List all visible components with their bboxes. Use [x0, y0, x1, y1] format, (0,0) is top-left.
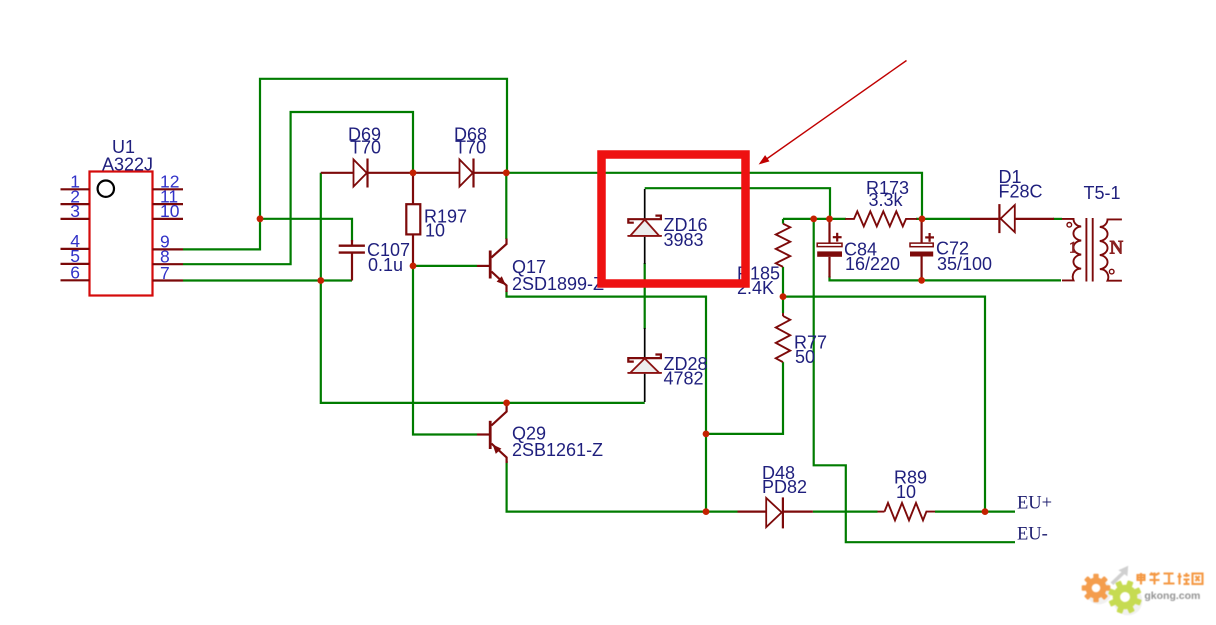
diode D1 right lead — [1015, 218, 1054, 220]
svg-text:10: 10 — [160, 201, 180, 221]
wire R77 top lead — [782, 297, 784, 313]
wire ZD16 bottom to ZD28 top (green mid segment) — [644, 263, 646, 329]
node pin7/C107-bottom — [317, 277, 324, 284]
zener ZD28 base line — [627, 372, 662, 374]
svg-text:1: 1 — [1069, 240, 1077, 257]
wire EU+ rail — [507, 461, 738, 512]
node R197/Q17-base/Q29-base — [410, 263, 417, 270]
wire D69 anode down to ZD28 bottom rail — [321, 173, 645, 403]
svg-text:A322J: A322J — [102, 155, 153, 175]
svg-text:N: N — [1110, 238, 1124, 259]
zener ZD28 bottom lead (black) — [644, 374, 646, 402]
wire Q17 base node down to Q29 base — [413, 266, 477, 435]
zener ZD28 top lead (black) — [644, 328, 646, 358]
svg-text:3983: 3983 — [664, 230, 704, 250]
node R77-bottom/EU+ column — [703, 431, 710, 438]
capacitor C72 top plate (hollow) — [910, 243, 933, 247]
wire R185 top lead — [782, 219, 784, 224]
svg-text:EU+: EU+ — [1017, 494, 1052, 514]
svg-text:10: 10 — [896, 482, 916, 502]
capacitor C84 plus sign — [833, 236, 842, 238]
resistor R89 left lead — [878, 511, 885, 513]
U1 pin 7 lead — [153, 279, 184, 281]
U1 pin 12 lead — [153, 188, 184, 190]
zener ZD28 cathode bar with hooks — [628, 355, 661, 362]
svg-text:50: 50 — [795, 347, 815, 367]
wire Q17 base — [413, 265, 477, 267]
zener ZD16 top lead (black) — [644, 189, 646, 219]
orange gear — [1082, 574, 1111, 603]
capacitor C107 bottom lead — [351, 253, 353, 280]
node C72 top / R173 right — [919, 216, 926, 223]
node EU- column top — [810, 216, 817, 223]
svg-text:7: 7 — [160, 263, 170, 283]
node D69/D68/R197 — [410, 169, 417, 176]
capacitor C72 plus sign — [925, 236, 934, 238]
op-amp U1 body — [90, 172, 153, 296]
svg-text:T70: T70 — [350, 138, 381, 158]
wire pin9 up and over to D68 cathode node — [183, 79, 507, 250]
transformer primary polarity dot — [1067, 223, 1072, 228]
U1 pin 11 lead — [153, 203, 184, 205]
gray rising arrow — [1111, 566, 1129, 585]
gkong watermark logo — [1078, 552, 1216, 625]
diode D48 cathode lead — [783, 511, 813, 513]
wire R89 to EU+ terminal — [935, 511, 1015, 513]
resistor R185 zigzag — [776, 224, 790, 267]
svg-text:10: 10 — [425, 221, 445, 241]
diode D68 triangle — [460, 160, 473, 187]
wire D1 cathode short green — [1053, 218, 1062, 220]
U1 pin 4 lead — [61, 248, 90, 250]
resistor R77 top stub — [782, 313, 784, 316]
node R185/R77 — [780, 293, 787, 300]
wire R173 right to D1 — [916, 218, 970, 220]
diode D68 cathode bar — [472, 159, 474, 188]
resistor R197 top lead — [412, 173, 414, 204]
wire pin7 to C107 bottom — [183, 279, 352, 281]
transistor Q29 base bar — [489, 421, 492, 449]
capacitor C84 top plate (hollow) — [817, 243, 842, 246]
svg-text:T5-1: T5-1 — [1084, 183, 1121, 203]
wire Q17 emitter down rail to EU+ — [507, 291, 707, 512]
gear shadows — [1087, 580, 1112, 605]
wire ZD16 top over to C84 node — [645, 188, 830, 219]
svg-text:0.1u: 0.1u — [368, 255, 403, 275]
diode D48 triangle — [766, 498, 782, 527]
svg-text:PD82: PD82 — [762, 477, 807, 497]
capacitor C84 bottom plate (solid) — [817, 251, 842, 256]
resistor R89 zigzag — [885, 503, 936, 520]
svg-text:F28C: F28C — [999, 181, 1043, 201]
svg-text:gkong.com: gkong.com — [1144, 590, 1200, 602]
wire EU- net from C84 node down jog to EU- terminal — [814, 219, 1015, 542]
wire R185 bottom to node — [782, 267, 784, 297]
resistor R77 zigzag — [776, 316, 790, 362]
svg-text:3.3k: 3.3k — [869, 190, 904, 210]
zener ZD28 triangle — [630, 359, 659, 373]
U1 pin 2 lead — [61, 203, 90, 205]
capacitor C72 bottom lead — [920, 257, 922, 281]
diode D48 anode lead — [738, 511, 767, 513]
wire D68 node down to Q17 collector — [505, 173, 507, 239]
svg-text:6: 6 — [70, 263, 80, 283]
svg-text:2SD1899-Z: 2SD1899-Z — [512, 274, 604, 294]
transistor Q29 base lead — [477, 433, 489, 435]
U1 pin 6 lead — [61, 279, 90, 281]
wire C84 bottom rail to transformer — [830, 276, 1062, 280]
diode D69 cathode bar — [366, 159, 368, 188]
capacitor C107 plates — [339, 244, 365, 246]
wire R77 bottom to EU+ rail — [706, 362, 783, 434]
U1 pin 1 lead — [61, 188, 90, 190]
svg-text:2SB1261-Z: 2SB1261-Z — [512, 440, 603, 460]
diode D48 cathode bar — [782, 497, 784, 528]
chinese brand text 中华工控网 — [1137, 573, 1203, 585]
U1 pin 10 lead — [153, 218, 184, 220]
transistor Q17 base bar — [489, 251, 492, 279]
U1 pin 5 lead — [61, 263, 90, 265]
transistor Q17 collector — [491, 239, 506, 258]
svg-text:35/100: 35/100 — [937, 254, 992, 274]
svg-text:EU-: EU- — [1017, 525, 1048, 545]
capacitor C84 bottom lead — [828, 257, 830, 278]
node EU+ / right column — [982, 508, 989, 515]
transistor Q17 emitter arrow — [497, 276, 506, 285]
annotation arrow line — [763, 61, 907, 162]
U1 pin-1 indicator circle — [98, 181, 114, 197]
svg-text:T70: T70 — [455, 138, 486, 158]
capacitor C72 top lead — [920, 219, 922, 243]
node C84 top — [826, 216, 833, 223]
resistor R197 body (box style) — [406, 204, 420, 234]
transistor Q17 emitter — [491, 272, 506, 293]
annotation arrow head — [759, 155, 770, 164]
diode D68 leads — [413, 172, 460, 174]
zener ZD16 cathode bar with hooks — [628, 216, 661, 223]
diode D69 leads — [321, 172, 354, 174]
wire main rail D68 to R173 node — [506, 173, 922, 219]
wire branch to C107 top — [260, 219, 352, 242]
svg-text:16/220: 16/220 — [845, 254, 900, 274]
zener ZD16 triangle — [630, 220, 659, 236]
svg-text:3: 3 — [70, 201, 80, 221]
capacitor C84 top lead — [828, 219, 830, 243]
U1 pin 3 lead — [61, 218, 90, 220]
diode D69 triangle — [354, 160, 367, 187]
highlight red box annotation — [602, 155, 746, 284]
transistor Q29 collector — [491, 405, 506, 426]
zener ZD16 base line — [627, 235, 662, 237]
transformer T5-1 secondary winding — [1100, 219, 1122, 280]
resistor R173 zigzag — [845, 211, 917, 226]
transformer secondary polarity dot — [1109, 269, 1114, 274]
svg-text:4782: 4782 — [664, 369, 704, 389]
capacitor C72 bottom plate (solid) — [910, 252, 933, 257]
diode D1 triangle (pointing left) — [1001, 205, 1015, 232]
diode D1 anode lead — [970, 218, 998, 220]
wire pin8 up and over to R197 top node — [183, 112, 413, 264]
wire D48 cathode to R89 — [813, 511, 878, 513]
node C72 bottom — [918, 277, 925, 284]
zener ZD16 bottom lead (black) — [644, 237, 646, 264]
transistor Q29 emitter — [491, 444, 506, 464]
U1 pin 8 lead — [153, 263, 184, 265]
transistor Q17 base lead — [477, 265, 489, 267]
transformer T5-1 core lines — [1085, 218, 1087, 282]
capacitor C107 top lead — [351, 240, 353, 245]
node D68 cathode — [503, 169, 510, 176]
transformer T5-1 primary winding — [1062, 219, 1081, 281]
node pin9/C107-top — [257, 215, 264, 222]
wire R185/R77 node right and down to EU+ — [783, 297, 985, 512]
node EU+ / Q29 emitter rail — [703, 508, 710, 515]
resistor R197 bottom lead — [412, 234, 414, 266]
wire top cap rail (R185 to R173 to D1) — [783, 218, 846, 220]
green gear — [1103, 575, 1146, 618]
U1 pin 9 lead — [153, 248, 184, 250]
transistor Q29 emitter arrow (PNP, pointing to base) — [493, 445, 502, 454]
diode D1 cathode bar — [998, 204, 1000, 233]
node ZD28-bottom/Q29-collector — [503, 400, 510, 407]
